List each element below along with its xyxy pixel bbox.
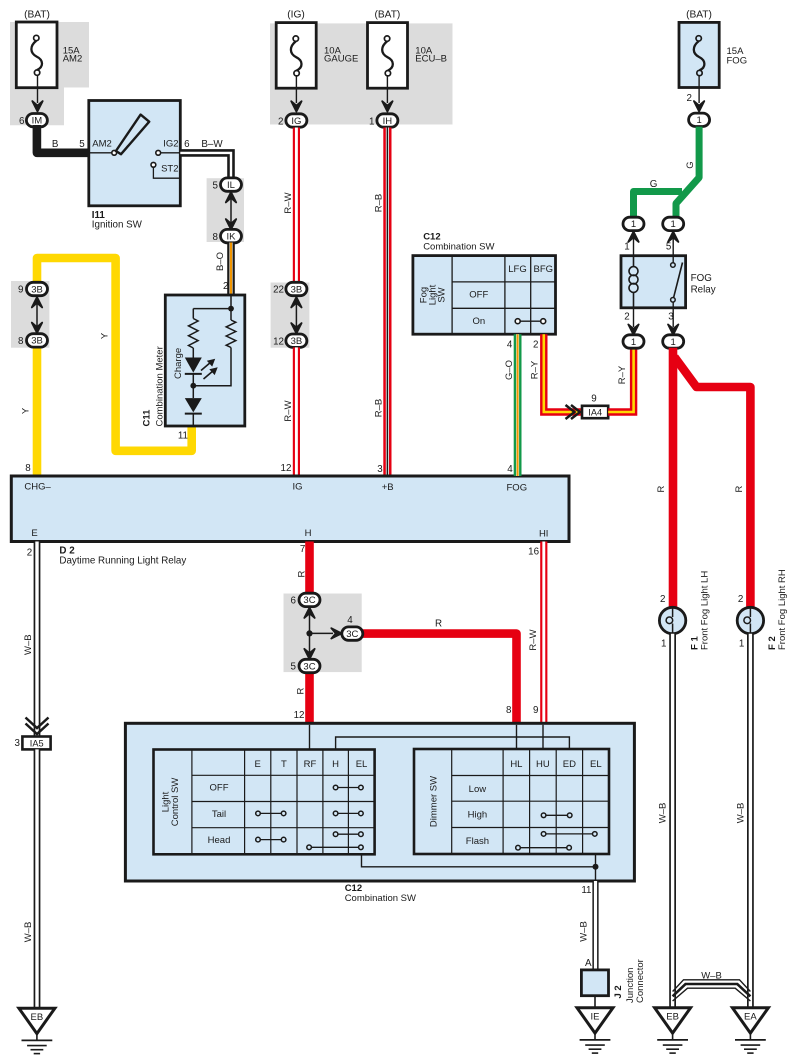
svg-text:W–B: W–B [701, 970, 722, 981]
arrow down to 3B-8 [32, 323, 42, 333]
svg-text:W–B: W–B [658, 803, 669, 824]
svg-text:2: 2 [687, 93, 692, 104]
svg-text:Combination Meter: Combination Meter [155, 346, 166, 426]
svg-text:BFG: BFG [534, 264, 554, 275]
svg-text:1: 1 [661, 639, 666, 650]
svg-text:2: 2 [27, 547, 32, 558]
fog switch On contact [515, 319, 546, 324]
combination meter C11 box [165, 295, 245, 426]
wire Y from 3B to D2 pin 8 [33, 347, 42, 476]
svg-text:6: 6 [19, 116, 25, 127]
svg-text:1: 1 [631, 337, 636, 348]
svg-text:IA4: IA4 [588, 407, 602, 417]
svg-text:EL: EL [356, 759, 368, 770]
svg-text:CHG–: CHG– [24, 481, 51, 492]
svg-text:3B: 3B [291, 336, 303, 347]
grey pad behind connector 3C [284, 594, 362, 673]
svg-text:IG2: IG2 [163, 139, 178, 150]
svg-text:3C: 3C [303, 595, 315, 606]
wire W-B from IA5 to ground EB [34, 749, 41, 1008]
svg-text:HI: HI [539, 529, 549, 540]
svg-text:W–B: W–B [23, 922, 34, 943]
arrow into connector IH [382, 101, 392, 111]
wire R from D2 pin H to 3C [305, 542, 314, 595]
svg-text:1: 1 [631, 219, 636, 230]
diode in C11 [185, 386, 202, 426]
wire R-Y from IA4 to fog relay pin 2 [608, 348, 633, 412]
arrow down to 3C-5 [304, 649, 314, 659]
light control switch table [154, 750, 375, 855]
svg-text:H: H [305, 528, 312, 539]
svg-text:G–O: G–O [504, 360, 515, 380]
chevrons into IA5 [26, 718, 49, 735]
wire Y from C11 pin 11 loop to 3B [37, 258, 192, 451]
grey pad behind GAUGE and ECU-B fuses [270, 23, 453, 124]
junction block IA5 [22, 737, 50, 750]
svg-text:G: G [685, 161, 696, 168]
contact Flash HL-ED [516, 845, 572, 850]
svg-text:Dimmer SW: Dimmer SW [428, 776, 439, 827]
C11 internal wiring [193, 295, 234, 319]
svg-text:ECU–B: ECU–B [415, 53, 447, 64]
svg-text:Combination SW: Combination SW [345, 893, 416, 904]
svg-text:R: R [734, 485, 745, 492]
internal wire pin9 to HU [542, 725, 544, 750]
arrow down relay pin 3 [668, 324, 678, 334]
ground EB right [655, 1008, 691, 1053]
svg-text:3C: 3C [303, 661, 315, 672]
svg-text:HL: HL [510, 759, 522, 770]
svg-text:Front Fog Light LH: Front Fog Light LH [699, 571, 710, 650]
arrow down to IK [226, 219, 236, 229]
svg-text:2: 2 [223, 281, 228, 292]
svg-text:5: 5 [79, 139, 85, 150]
svg-text:B: B [52, 139, 59, 150]
connector 1 below relay pin 2 [623, 335, 644, 348]
wire G from FOG fuse to relay pin 5 [676, 127, 699, 218]
contact Flash HU-EL [541, 832, 597, 837]
wire J2 to ground IE [594, 996, 596, 1008]
svg-text:E: E [31, 528, 37, 539]
contact Head RF-EL [307, 845, 363, 850]
svg-text:R: R [297, 570, 308, 577]
wire R branch to front fog light RH [675, 357, 751, 608]
svg-text:ED: ED [563, 759, 576, 770]
arrow right to 3C-4 [331, 628, 341, 638]
svg-text:4: 4 [507, 340, 513, 351]
connector IG [286, 114, 307, 127]
wires relay top pins [634, 236, 674, 256]
grey pad behind connector 3B (22/12) [271, 283, 310, 348]
contact Tail H-EL [333, 811, 363, 816]
grey pad behind connector 3B (9/8) [11, 281, 49, 348]
svg-text:5: 5 [213, 180, 219, 191]
svg-text:W–B: W–B [23, 634, 34, 655]
svg-text:FOG: FOG [507, 483, 528, 494]
svg-text:5: 5 [291, 661, 297, 672]
svg-text:7: 7 [300, 544, 305, 555]
resistor right in C11 [230, 309, 232, 320]
IG2 terminal [156, 139, 181, 156]
wire R from relay pin 3 to front fog light LH [669, 348, 678, 608]
arrow up relay pin 1 [628, 232, 638, 242]
wire W-B from pin 11 to J2 [592, 881, 598, 970]
svg-text:Y: Y [21, 407, 32, 414]
connector 1 above relay pin 5 [663, 217, 684, 230]
connector 1 below relay pin 3 [663, 335, 684, 348]
svg-text:OFF: OFF [469, 289, 488, 300]
svg-text:RF: RF [304, 759, 317, 770]
arrow up relay pin 5 [668, 232, 678, 242]
wire B-W from IG2 to IL [180, 153, 231, 180]
internal wire H to ED [336, 737, 570, 750]
connector IL [221, 178, 242, 191]
internal wire pin8 to HL [516, 725, 518, 750]
svg-text:R: R [296, 687, 307, 694]
wire R-W from D2 HI to combination switch pin 9 [540, 542, 547, 725]
wire G branch to relay pin 1 [634, 192, 683, 218]
svg-text:IH: IH [383, 116, 393, 127]
junction in C11 [190, 348, 231, 389]
arrow down relay pin 2 [628, 324, 638, 334]
front fog light F1 bulb [659, 607, 685, 633]
wire from light control EL to junction [362, 854, 596, 867]
svg-text:FOG: FOG [691, 273, 712, 284]
relay switch [671, 256, 683, 308]
ground EB left [19, 1008, 55, 1053]
wires relay bottom pins [634, 308, 674, 327]
svg-text:Flash: Flash [466, 836, 489, 847]
svg-text:E: E [255, 759, 261, 770]
connector 3C right [342, 627, 363, 640]
svg-text:R–W: R–W [528, 629, 539, 650]
ST2 terminal [151, 162, 180, 178]
svg-text:R: R [435, 619, 442, 630]
svg-text:12: 12 [294, 710, 305, 721]
svg-text:8: 8 [506, 705, 512, 716]
svg-text:Low: Low [469, 784, 487, 795]
svg-text:1: 1 [696, 115, 701, 126]
fuse 10A ECU-B [368, 23, 408, 89]
svg-text:H: H [332, 759, 339, 770]
relay coil [629, 256, 638, 308]
contact OFF H-EL [333, 785, 363, 790]
svg-text:5: 5 [666, 242, 672, 253]
wire R from 3C pin 4 to combination switch pin 8 [362, 634, 517, 725]
wire junction to box edge [595, 867, 597, 881]
svg-text:3B: 3B [31, 336, 43, 347]
wire W-B from F1 to ground EB [669, 634, 676, 1008]
svg-text:12: 12 [281, 463, 292, 474]
junction connector J2 [581, 970, 608, 996]
combination switch C12 box [125, 723, 634, 881]
svg-text:AM2: AM2 [63, 53, 83, 64]
svg-text:W–B: W–B [579, 921, 590, 942]
arrow up to 3B-22 [291, 297, 301, 307]
svg-text:8: 8 [213, 232, 219, 243]
svg-text:11: 11 [581, 885, 591, 896]
connector 3B lower-left [27, 334, 48, 347]
wire W-B bridge between ground wires [673, 980, 751, 1001]
svg-text:2: 2 [660, 594, 665, 605]
arrow into connector 1 below FOG fuse [694, 101, 704, 111]
svg-text:ST2: ST2 [161, 164, 178, 175]
arrow into connector IG [291, 101, 301, 111]
svg-text:Y: Y [100, 332, 111, 339]
svg-text:EL: EL [590, 759, 602, 770]
FOG relay box [621, 256, 686, 308]
svg-text:1: 1 [624, 242, 629, 253]
svg-text:G: G [650, 179, 658, 190]
svg-text:IE: IE [591, 1012, 600, 1023]
svg-text:AM2: AM2 [92, 139, 112, 150]
contact Head E-T [256, 837, 286, 842]
wire R from 3C pin 5 to combination switch pin 12 [305, 672, 314, 725]
svg-text:3B: 3B [291, 284, 303, 295]
svg-text:IK: IK [227, 231, 237, 242]
svg-text:2: 2 [738, 594, 743, 605]
dimmer switch table [414, 749, 609, 854]
ignition switch lever [116, 115, 149, 155]
svg-text:R–Y: R–Y [529, 360, 540, 379]
wire B-O from IK to combination meter [227, 243, 235, 296]
svg-text:4: 4 [347, 615, 353, 626]
svg-text:(BAT): (BAT) [24, 10, 50, 21]
line between 3B 22 and 12 [295, 301, 297, 329]
connector 3C lower [299, 659, 320, 672]
daytime running light relay D2 box [11, 476, 569, 542]
svg-text:Ignition SW: Ignition SW [92, 220, 143, 231]
svg-text:R–B: R–B [374, 399, 385, 417]
svg-text:(BAT): (BAT) [374, 10, 400, 21]
ignition switch I11 box [89, 101, 181, 206]
svg-text:Tail: Tail [212, 809, 226, 820]
wire from FOG fuse to connector 1 [698, 75, 700, 103]
svg-text:IM: IM [32, 116, 43, 127]
svg-text:R–B: R–B [374, 194, 385, 212]
fog switch table grid [452, 256, 555, 335]
svg-text:8: 8 [25, 463, 31, 474]
svg-text:B–W: B–W [201, 139, 223, 150]
svg-text:LFG: LFG [508, 264, 526, 275]
fuse 15A FOG [679, 22, 719, 87]
svg-text:FOG: FOG [727, 56, 748, 67]
svg-text:SW: SW [437, 287, 448, 302]
wire W-B from F2 to ground EA [747, 634, 754, 1008]
svg-text:3B: 3B [31, 284, 43, 295]
line between IL and IK [230, 196, 232, 225]
svg-text:IA5: IA5 [30, 738, 44, 748]
svg-text:High: High [468, 810, 488, 821]
wire W-B from D2 pin E to IA5 [34, 542, 41, 737]
svg-text:Connector: Connector [635, 959, 646, 1003]
junction block IA4 [582, 406, 608, 418]
line between 3B 9 and 8 [36, 301, 38, 329]
svg-text:R–Y: R–Y [617, 365, 628, 384]
svg-text:R–W: R–W [283, 400, 294, 421]
wire G-O from fog switch to D2 FOG [514, 334, 522, 476]
fuse 15A AM2 [16, 22, 57, 88]
svg-text:16: 16 [528, 547, 539, 558]
svg-text:1: 1 [739, 639, 744, 650]
connector 3B upper-left [27, 282, 48, 295]
connector IM [26, 114, 47, 127]
svg-text:9: 9 [18, 285, 23, 296]
svg-text:Charge: Charge [173, 348, 184, 379]
wire R-B from IH to D2 pin 3 [383, 128, 391, 477]
svg-text:HU: HU [536, 759, 550, 770]
connector 1 above relay pin 1 [623, 217, 644, 230]
svg-text:4: 4 [507, 464, 513, 475]
3C internal line and junction [306, 611, 333, 655]
front fog light F2 bulb [737, 607, 763, 633]
svg-text:Head: Head [208, 835, 231, 846]
svg-text:IG: IG [293, 481, 303, 492]
svg-text:IL: IL [227, 180, 235, 191]
grey pad behind connector IL/IK [207, 178, 244, 242]
svg-text:12: 12 [273, 337, 284, 348]
wire from AM2 fuse to connector IM [37, 75, 39, 103]
svg-text:22: 22 [273, 285, 284, 296]
svg-text:J 2: J 2 [613, 985, 624, 998]
svg-text:2: 2 [278, 116, 283, 127]
arrow into connector IM [32, 101, 42, 111]
svg-text:6: 6 [291, 595, 297, 606]
fuse 10A GAUGE [276, 23, 316, 89]
svg-text:Daytime Running Light Relay: Daytime Running Light Relay [59, 555, 186, 566]
AM2 terminal [89, 139, 117, 156]
svg-text:T: T [281, 759, 287, 770]
arrow up to IL [226, 192, 236, 202]
svg-text:2: 2 [533, 340, 538, 351]
wire B from IM to ignition switch [37, 125, 90, 153]
svg-text:On: On [472, 316, 485, 327]
chevrons into IA4 [566, 405, 581, 419]
svg-text:1: 1 [369, 116, 374, 127]
svg-text:C11: C11 [142, 409, 153, 427]
svg-text:W–B: W–B [736, 803, 747, 824]
wire from ECU-B fuse to IH connector [386, 76, 388, 103]
internal wire pin12 to RF [309, 725, 311, 750]
connector 1 below FOG fuse [689, 113, 710, 126]
svg-text:Relay: Relay [691, 285, 716, 296]
ground IE [577, 1008, 613, 1053]
wire from GAUGE fuse to IG connector [295, 76, 297, 103]
svg-text:3: 3 [668, 312, 674, 323]
svg-text:Control SW: Control SW [170, 778, 181, 827]
svg-text:Combination SW: Combination SW [423, 242, 494, 253]
svg-text:EB: EB [666, 1012, 679, 1023]
svg-text:OFF: OFF [210, 783, 229, 794]
svg-text:EA: EA [744, 1012, 757, 1023]
wire R-W upper [293, 128, 300, 284]
svg-text:3C: 3C [346, 629, 358, 640]
svg-text:Front Fog Light RH: Front Fog Light RH [777, 569, 788, 650]
arrow down to 3B-12 [291, 323, 301, 333]
svg-text:IG: IG [291, 116, 301, 127]
svg-text:A: A [585, 958, 592, 969]
svg-text:9: 9 [533, 705, 538, 716]
svg-text:8: 8 [18, 336, 24, 347]
svg-text:1: 1 [671, 219, 676, 230]
wire from dimmer EL down [595, 854, 597, 867]
svg-text:9: 9 [591, 393, 596, 404]
svg-text:(BAT): (BAT) [686, 10, 712, 21]
charge LED in C11 [185, 348, 218, 379]
svg-text:3: 3 [377, 464, 383, 475]
contact Tail E-T [256, 811, 286, 816]
svg-text:1: 1 [671, 337, 676, 348]
svg-text:B–O: B–O [215, 252, 226, 271]
svg-text:6: 6 [184, 139, 190, 150]
contact High HU-ED [541, 813, 572, 818]
ground EA [732, 1008, 768, 1053]
arrow up to 3C-6 [304, 608, 314, 618]
fog light switch C12 box [413, 256, 556, 335]
connector 3B lower-right [286, 334, 307, 347]
junction dot pin 11 [593, 864, 599, 870]
connector IH [377, 114, 398, 127]
svg-text:R: R [656, 485, 667, 492]
connector 3B upper-right [286, 282, 307, 295]
svg-text:R–W: R–W [283, 192, 294, 213]
svg-text:(IG): (IG) [287, 10, 305, 21]
svg-text:EB: EB [31, 1012, 44, 1023]
svg-text:11: 11 [178, 430, 188, 441]
svg-text:GAUGE: GAUGE [324, 53, 358, 64]
contact Head H-EL [333, 832, 363, 837]
wire R-Y from fog switch to IA4 [544, 334, 582, 412]
svg-text:+B: +B [382, 482, 394, 493]
svg-text:3: 3 [15, 738, 21, 749]
svg-text:2: 2 [624, 312, 629, 323]
arrow up to 3B-9 [32, 297, 42, 307]
connector IK [221, 229, 242, 242]
resistor left in C11 [189, 319, 199, 349]
wire R-W to D2 pin 12 [293, 347, 300, 476]
connector 3C upper [299, 593, 320, 606]
grey pad behind AM2 fuse and connector IM [10, 22, 89, 125]
